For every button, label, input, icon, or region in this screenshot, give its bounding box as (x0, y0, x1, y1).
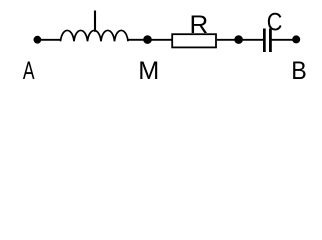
wire inductor to M (128, 39, 144, 41)
wire M to resistor (148, 39, 172, 41)
node A (34, 36, 42, 44)
wire capacitor to B (272, 39, 294, 41)
node M (143, 35, 152, 44)
capacitor C left plate (263, 29, 266, 53)
svg-text:B: B (291, 57, 306, 85)
svg-text:M: M (138, 57, 159, 85)
wire resistor to junction (217, 39, 235, 41)
junction node (234, 35, 243, 44)
svg-text:A: A (23, 56, 35, 85)
svg-text:C: C (267, 8, 283, 36)
node B (292, 35, 300, 43)
inductor L (5 loops) (61, 30, 129, 41)
svg-text:R: R (190, 11, 209, 38)
capacitor C right plate (269, 29, 272, 53)
wire A to inductor (37, 39, 61, 41)
resistor R (172, 34, 216, 47)
label l (inductance) (94, 11, 96, 32)
wire junction to capacitor (239, 39, 264, 41)
